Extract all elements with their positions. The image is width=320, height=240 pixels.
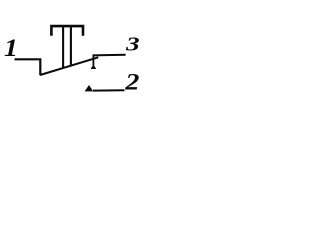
- pivot link from terminal 3: [92, 55, 94, 65]
- fixed contact triangle of terminal 2: [85, 85, 94, 91]
- actuator bracket (push-bar): [51, 26, 83, 36]
- svg-text:2: 2: [124, 69, 139, 95]
- lever (moving contact): [40, 57, 98, 75]
- wire: terminal 2 lead: [93, 89, 125, 91]
- pivot support triangle: [91, 64, 97, 69]
- actuator stem right: [70, 26, 72, 66]
- wire: terminal 3 lead: [93, 54, 126, 57]
- svg-text:1: 1: [4, 33, 18, 62]
- svg-text:3: 3: [125, 34, 140, 56]
- wire: terminal 1 lead with step down: [15, 59, 41, 75]
- actuator stem left: [62, 26, 64, 69]
